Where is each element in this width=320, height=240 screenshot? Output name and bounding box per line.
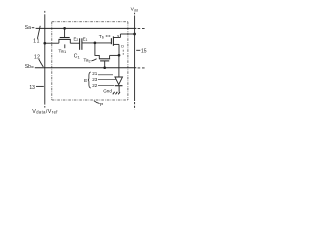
label Ta2 <box>83 58 90 64</box>
svg-text:E: E <box>84 78 88 84</box>
leader line 23 <box>98 78 116 80</box>
label Ta1 <box>58 48 67 54</box>
wire scan line b continuation dashes <box>138 67 146 69</box>
label Tb <box>99 34 105 40</box>
leader dash for 15 <box>136 49 140 51</box>
leader line Ta2 <box>91 59 96 61</box>
svg-text:Vdd: Vdd <box>131 7 138 13</box>
label 13 <box>29 85 35 91</box>
node: scan a to Ta1 gate <box>63 27 66 30</box>
node: Tb drain / Ta2 / OLED anode <box>118 54 121 57</box>
label s (source pin) <box>117 34 119 38</box>
leader dash from Sb <box>31 66 33 68</box>
leader line 12 <box>39 59 44 67</box>
svg-text:15: 15 <box>141 48 147 54</box>
svg-text:Sb: Sb <box>25 64 31 70</box>
svg-text:22: 22 <box>92 83 98 88</box>
label D (drain pin) <box>121 45 124 49</box>
label 15 <box>141 48 147 54</box>
leader dashes Tb <box>106 35 111 37</box>
label 12 <box>34 54 40 60</box>
short dash-dot segment right of drain node <box>122 50 124 56</box>
wire gate net down to Ta2 source <box>95 43 99 59</box>
pixel boundary dash-dot box <box>52 22 128 100</box>
data line bottom dash <box>44 106 46 108</box>
transistor Ta2 <box>99 55 119 67</box>
brace for OLED layers <box>88 72 91 88</box>
OLED P (diode) <box>115 77 123 92</box>
leader line 13 <box>36 85 44 87</box>
wire scan line a continuation dashes <box>138 27 146 29</box>
label C1 <box>74 54 81 60</box>
leader line 22 <box>98 84 114 86</box>
wire data branch into pixel <box>45 42 59 44</box>
data line top dash <box>44 11 46 13</box>
leader line P <box>94 101 100 104</box>
svg-text:11: 11 <box>33 39 40 45</box>
svg-text:D: D <box>121 45 124 49</box>
label 23 <box>92 77 98 82</box>
wire anode line down <box>118 55 120 77</box>
wire scan line b <box>35 67 137 69</box>
leader dash from Sa <box>32 27 35 29</box>
Vdd supply line bottom dashes <box>134 102 136 110</box>
svg-text:Vdata/Vref: Vdata/Vref <box>32 109 58 115</box>
svg-text:E2: E2 <box>74 37 79 43</box>
svg-text:Ta2: Ta2 <box>83 58 90 64</box>
label Vdata/Vref <box>32 109 58 115</box>
label E1 <box>83 37 88 43</box>
transistor Ta1 <box>59 28 71 43</box>
svg-text:Gnd: Gnd <box>103 88 112 93</box>
capacitor C1 <box>80 38 82 50</box>
label Vdd <box>131 7 138 13</box>
label P <box>100 102 103 108</box>
label E2 <box>74 37 79 43</box>
label Gnd <box>103 88 112 93</box>
wire Ta1 to C1 <box>70 42 79 44</box>
label E with brace <box>84 78 88 84</box>
leader line 11 <box>37 26 40 39</box>
leader line Ta1 <box>64 44 66 48</box>
label Sb <box>25 64 31 70</box>
svg-text:C1: C1 <box>74 54 81 60</box>
wire scan line a <box>36 27 137 29</box>
ground hatching <box>113 92 120 95</box>
node: Ta2 gate on scan line b <box>103 66 106 69</box>
svg-text:P: P <box>100 102 103 108</box>
label Sa <box>25 25 31 31</box>
svg-text:13: 13 <box>29 85 35 91</box>
svg-text:21: 21 <box>92 71 98 76</box>
svg-text:Sa: Sa <box>25 25 31 31</box>
svg-text:Ta1: Ta1 <box>58 48 67 54</box>
node: gate net to Ta2 <box>94 42 97 45</box>
leader line 21 <box>98 74 113 76</box>
svg-text:E1: E1 <box>83 37 88 43</box>
node: data line to pixel input <box>43 42 46 45</box>
Vdd supply line (vertical) <box>134 16 136 102</box>
Vdd supply line top dash <box>134 13 136 15</box>
transistor Tb <box>111 34 134 55</box>
svg-text:s: s <box>117 34 119 38</box>
node: Tb source to Vdd <box>133 33 136 36</box>
label 11 <box>33 39 40 45</box>
data line (vertical) <box>44 14 46 104</box>
label 22 <box>92 83 98 88</box>
wire C1 to Tb gate <box>82 42 111 44</box>
svg-text:Tb: Tb <box>99 34 105 40</box>
svg-text:23: 23 <box>92 77 98 82</box>
label 21 <box>92 71 98 76</box>
